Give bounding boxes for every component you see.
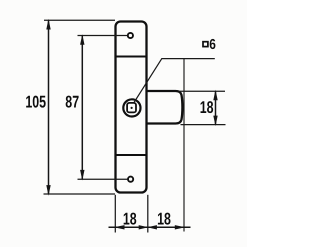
svg-text:18: 18 <box>200 98 214 117</box>
svg-text:6: 6 <box>209 37 216 53</box>
bottom screw hole <box>128 177 133 182</box>
arrow bottom middle pointing right (tip at 147.6) <box>139 225 149 229</box>
leader line to square hole <box>134 59 215 103</box>
arrow 87 bottom <box>80 170 84 181</box>
svg-text:18: 18 <box>157 209 171 228</box>
extension line below plate right (x=147.5) <box>147 195 149 233</box>
extension line bottom of plate (105) <box>44 193 116 195</box>
extension line top hole (87) <box>78 35 128 37</box>
arrow bottom left (tip at 115.3) <box>114 225 125 229</box>
svg-text:18: 18 <box>123 209 137 228</box>
bolt (latch) <box>147 91 182 124</box>
dimension line 105 <box>48 20 50 194</box>
spindle hole circle <box>123 99 140 116</box>
faceplate outline <box>116 22 147 193</box>
spindle center dot <box>131 107 133 109</box>
arrow bottom right (tip at 184) <box>175 225 186 229</box>
arrow 105 bottom <box>46 185 50 196</box>
svg-text:87: 87 <box>65 93 79 112</box>
top screw hole <box>128 33 133 38</box>
extension line bolt end long (x=184) <box>183 59 185 232</box>
dimension line 18 right <box>215 91 217 124</box>
extension line bottom hole (87) <box>78 178 128 180</box>
extension line below plate left (x=115) <box>114 195 116 233</box>
dimension line 87 <box>81 36 83 180</box>
spindle square hole 6mm <box>127 103 136 113</box>
faceplate top joint line <box>115 56 148 58</box>
label square symbol <box>203 42 208 47</box>
extension line bolt bottom (18 right) <box>181 124 226 126</box>
extension line top of plate (105) <box>44 19 115 21</box>
faceplate bottom joint line <box>115 154 148 156</box>
arrow 105 top <box>46 19 50 30</box>
bottom dimension line <box>109 226 191 228</box>
extension line bolt top (18 right) <box>179 90 226 92</box>
arrow bottom middle pointing left (tip at 147.6) <box>147 225 157 229</box>
arrow 87 top <box>80 34 84 45</box>
arrow 18 right top <box>213 90 217 100</box>
arrow 18 right bottom <box>213 116 217 126</box>
svg-text:105: 105 <box>25 93 46 112</box>
